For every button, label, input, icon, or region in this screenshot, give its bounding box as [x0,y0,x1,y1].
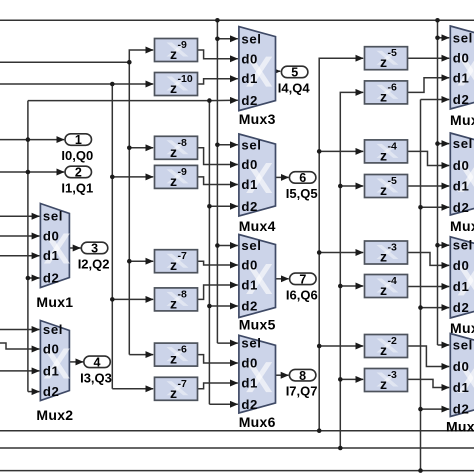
junction right d2 Mux9 [418,305,423,310]
svg-text:z: z [170,351,177,367]
wire Mux2 d1 input [0,370,39,372]
mux Mux1 [36,204,73,311]
svg-text:-5: -5 [388,175,397,187]
wire to port 2 [0,171,64,173]
wire L1 stub z-9 second [112,176,153,178]
wire d2 stub Mux1 [28,277,40,279]
svg-text:z: z [380,88,387,104]
svg-text:d2: d2 [453,92,470,107]
svg-text:I1,Q1: I1,Q1 [61,181,93,196]
wire sel stub Mux7 [438,37,450,39]
svg-text:Mux2: Mux2 [36,407,73,423]
svg-text:I2,Q2: I2,Q2 [78,257,110,272]
svg-text:8: 8 [299,369,306,383]
svg-text:-8: -8 [178,137,187,149]
delay block z-3 (bank3 top-right) [365,241,408,265]
mux Mux9 [450,237,474,336]
wire Mux1 out to port 3 [69,247,80,249]
wire d2 stub Mux2 [28,391,40,393]
wire d2 vertical (right muxes) [420,100,422,471]
delay block z-7 (bank4 bottom-left) [155,377,198,401]
wire Mux1 sel input [0,215,39,217]
wire d2 stub Mux4 [209,205,237,207]
svg-text:sel: sel [453,136,473,151]
wire A stub z-2 [319,345,363,347]
junction right d2 Mux8 [418,205,423,210]
port 3 I2,Q2 [78,242,110,272]
svg-text:d1: d1 [453,279,470,294]
junction d2 feed Mux3 [207,98,212,103]
svg-text:1: 1 [75,133,82,147]
wire d2 vertical (middle muxes) [208,101,210,405]
junction sel Mux7 [435,36,440,41]
wire sel stub Mux6 [217,342,237,344]
svg-text:d1: d1 [241,71,258,86]
svg-text:z: z [380,282,387,298]
delay block z-6 (bank4 top-left) [155,343,198,367]
svg-text:d1: d1 [241,376,258,391]
wire bottom bus 3 [0,470,474,472]
svg-text:sel: sel [43,322,63,337]
wire sel stub Mux8 [438,143,450,145]
junction shared net / port2 row [26,170,31,175]
port 1 I0,Q0 [61,133,93,163]
svg-text:d0: d0 [241,51,258,66]
svg-text:Mux5: Mux5 [239,317,276,333]
svg-text:2: 2 [75,166,82,180]
wire z-10 to Mux3 d1 [198,79,238,84]
svg-text:d0: d0 [241,157,258,172]
junction B z-4 second [338,284,343,289]
mux Mux7 [450,26,474,128]
svg-text:sel: sel [241,137,261,152]
svg-text:z: z [380,376,387,392]
svg-text:d1: d1 [43,363,60,378]
port 2 I1,Q1 [61,166,93,196]
junction B z-5 second [338,184,343,189]
svg-text:7: 7 [299,272,306,286]
svg-text:Mux7: Mux7 [450,112,474,128]
wire d2 feed to Mux3 [28,99,238,101]
junction L1 z-8 second [110,297,115,302]
wire bottom bus 2 [0,447,474,449]
mux Mux4 [239,134,276,234]
svg-text:-8: -8 [178,288,187,300]
svg-text:d2: d2 [453,200,470,215]
svg-text:d0: d0 [453,258,470,273]
wire z-6 to Mux6 d0 [198,355,238,363]
svg-text:z: z [380,54,387,70]
wire z-8 to Mux4 d0 [198,148,238,165]
junction sel Mux9 [435,243,440,248]
junction A z-3 [317,250,322,255]
wire L2 stub z-7 [129,260,153,262]
wire sel stub Mux9 [438,244,450,246]
wire B stub z-4 second [340,285,363,287]
wire bottom bus 1 [0,430,474,432]
mux Mux6 [239,335,276,430]
svg-text:sel: sel [453,30,473,45]
svg-text:z: z [380,249,387,265]
delay block z-4 (bank2 top-right) [365,140,408,164]
svg-text:z: z [380,182,387,198]
svg-text:-6: -6 [388,81,397,93]
junction L2 z-7 [127,259,132,264]
junction sel Mux4 [215,143,220,148]
svg-text:-6: -6 [178,344,187,356]
svg-text:Mux6: Mux6 [239,414,276,430]
port 4 I3,Q3 [80,356,112,386]
svg-text:z: z [170,80,177,96]
svg-text:-3: -3 [388,242,397,254]
svg-text:I7,Q7: I7,Q7 [286,384,318,399]
wire z-5b to Mux8 d1 [408,185,450,187]
svg-text:d0: d0 [453,158,470,173]
svg-text:d2: d2 [43,384,60,399]
svg-text:I0,Q0: I0,Q0 [61,148,93,163]
svg-text:d0: d0 [241,258,258,273]
svg-text:d2: d2 [43,271,60,286]
wire z-5 to Mux7 d0 [408,57,450,59]
wire sel bus top [0,19,474,21]
svg-text:sel: sel [241,238,261,253]
svg-text:d2: d2 [453,300,470,315]
port 7 I6,Q6 [286,272,318,302]
svg-text:d1: d1 [453,380,470,395]
svg-text:sel: sel [241,336,261,351]
svg-text:z: z [170,144,177,160]
svg-text:z: z [170,385,177,401]
mux Mux5 [239,235,276,333]
wire z-3b to Mux10 d1 [408,379,450,387]
junction A z-4 [317,149,322,154]
wire L1 stub z-7 second [112,388,153,390]
svg-text:d2: d2 [453,402,470,417]
wire sel stub Mux3 [217,38,237,40]
delay block z-9 (bank1 top-left) [155,39,198,63]
delay block z-5 (bank1 top-right) [365,47,408,70]
svg-text:Mux8: Mux8 [450,218,474,234]
svg-text:z: z [170,173,177,189]
wire L2 stub z-6 [129,354,153,356]
svg-text:d1: d1 [453,179,470,194]
delay block z-6 (bank1 bottom-right) [365,81,408,105]
svg-text:sel: sel [241,31,261,46]
wire sel stub Mux10 [438,344,450,346]
wire B stub z-5 second [340,185,363,187]
svg-text:d2: d2 [241,199,258,214]
port 8 I7,Q7 [286,369,318,399]
wire shared vertical x28 [27,101,29,392]
wire Mux3 out to port 5 [276,70,281,72]
wire A stub z-4 [319,150,363,152]
svg-text:-10: -10 [178,73,193,85]
wire Mux2 out to port 4 [69,361,83,363]
junction sel bus / right sel vertical [435,18,440,23]
svg-text:-4: -4 [388,140,397,152]
wire z-4 to Mux8 d0 [408,151,450,165]
svg-text:-9: -9 [178,166,187,178]
svg-text:d1: d1 [453,70,470,85]
svg-text:d1: d1 [43,248,60,263]
svg-text:Mux1: Mux1 [36,294,73,310]
mux Mux2 [36,321,73,424]
wire z-2 to Mux10 d0 [408,346,450,367]
svg-text:d0: d0 [241,356,258,371]
wire sel vertical (middle muxes) [216,20,218,343]
wire z-4b to Mux9 d1 [408,286,450,288]
wire d2 stub Mux10 [421,408,450,410]
svg-text:z: z [170,46,177,62]
svg-text:I4,Q4: I4,Q4 [278,81,311,96]
junction d2 Mux4 [207,204,212,209]
wire A stub z-3 [319,252,363,254]
svg-text:Mux3: Mux3 [239,111,276,127]
svg-text:-7: -7 [178,378,187,390]
junction A bus1 [317,428,322,433]
port 6 I5,Q5 [286,171,318,201]
wire L1 vertical [111,84,113,389]
svg-text:d0: d0 [453,359,470,374]
svg-text:sel: sel [453,238,473,253]
wire B stub z-3 second [340,378,363,380]
svg-text:4: 4 [94,356,101,370]
junction right d2 bus3 [418,468,423,473]
delay block z-3 (bank4 bottom-right) [365,369,408,393]
delay block z-8 (bank2 top-left) [155,136,198,160]
wire d2 stub Mux8 [421,206,450,208]
svg-text:d2: d2 [241,299,258,314]
port 5 I4,Q4 [278,66,311,96]
junction sel Mux8 [435,141,440,146]
junction A z-2 [317,344,322,349]
wire sel vertical (right muxes) [437,20,439,345]
delay block z-5 (bank2 bottom-right) [365,175,408,199]
svg-text:z: z [380,342,387,358]
wire input feed to z-10 [0,83,153,85]
mux Mux10 [446,334,474,435]
wire Mux6 out to port 8 [275,374,289,376]
wire d2 stub Mux5 [209,305,237,307]
junction L1 feed [110,82,115,87]
wire A vertical feeding z-5 [319,58,363,431]
svg-text:-7: -7 [178,250,187,262]
wire z-6 to Mux7 d1 [408,78,450,93]
junction B z-3 second [338,377,343,382]
wire sel stub Mux4 [217,144,237,146]
wire d2 stub Mux9 [421,307,450,309]
mux Mux3 [239,27,276,127]
junction shared net / Mux1 d2 [26,276,31,281]
junction sel Mux5 [215,243,220,248]
junction L2 z-8 [127,146,132,151]
junction right d2 Mux10 [418,407,423,412]
svg-text:I5,Q5: I5,Q5 [286,186,318,201]
wire z-9b to Mux4 d1 [198,177,238,185]
svg-text:3: 3 [91,242,98,256]
wire Mux2 sel input [0,329,39,331]
svg-text:-2: -2 [388,335,397,347]
svg-text:sel: sel [453,338,473,353]
svg-text:d0: d0 [43,342,60,357]
junction L2 feed [127,60,132,65]
wire input feed upper-left [0,61,129,63]
svg-text:d2: d2 [241,397,258,412]
svg-text:d0: d0 [43,229,60,244]
mux Mux8 [450,133,474,234]
delay block z-8 (bank3 bottom-left) [155,288,198,312]
wire Mux1 d0 input [0,235,39,237]
svg-text:I6,Q6: I6,Q6 [286,287,318,302]
svg-text:Mux4: Mux4 [239,218,276,234]
wire Mux4 out to port 6 [276,176,289,178]
svg-text:-3: -3 [388,369,397,381]
wire z-7 to Mux5 d0 [198,261,238,265]
wire d2 stub Mux6 [209,403,237,405]
delay block z-4 (bank3 bottom-right) [365,275,408,299]
wire z-7b to Mux6 d1 [198,383,238,389]
svg-text:d2: d2 [241,93,258,108]
svg-text:sel: sel [43,209,63,224]
svg-text:6: 6 [299,171,306,185]
wire z-3 to Mux9 d0 [408,253,450,266]
junction B bus2 [338,446,343,451]
svg-text:I3,Q3: I3,Q3 [80,370,112,385]
svg-text:z: z [170,257,177,273]
wire Mux1 d1 input [0,255,39,257]
junction shared net / port1 row [26,137,31,142]
svg-text:z: z [380,147,387,163]
wire B vertical feeding z-6 [340,92,363,448]
wire to port 1 [0,139,64,141]
svg-text:d1: d1 [241,177,258,192]
delay block z-2 (bank4 top-right) [365,335,408,359]
wire sel stub Mux5 [217,245,237,247]
wire L2 stub z-8 [129,147,153,149]
wire z-8b to Mux5 d1 [198,285,238,299]
svg-text:5: 5 [291,66,298,80]
svg-text:Mux10: Mux10 [446,419,474,435]
svg-text:z: z [170,295,177,311]
junction sel Mux3 [215,37,220,42]
junction d2 Mux5 [207,304,212,309]
wire Mux5 out to port 7 [276,278,289,280]
delay block z-7 (bank3 top-left) [155,250,198,274]
svg-text:d1: d1 [241,278,258,293]
wire L2 vertical feeding z-9 [129,50,153,355]
delay block z-10 (bank1 bottom-left) [155,73,198,97]
wire d2 stub Mux7 [421,99,450,101]
svg-text:-5: -5 [388,47,397,59]
junction sel bus / middle sel vertical [215,18,220,23]
svg-text:-4: -4 [388,275,397,287]
delay block z-9 (bank2 bottom-left) [155,165,198,189]
svg-text:-9: -9 [178,39,187,51]
junction L1 z-9 second [110,175,115,180]
wire z-9 to Mux3 d0 [198,50,238,59]
wire L1 stub z-8 second [112,298,153,300]
svg-text:d0: d0 [453,51,470,66]
wire Mux2 d0 input (jog) [0,343,39,349]
